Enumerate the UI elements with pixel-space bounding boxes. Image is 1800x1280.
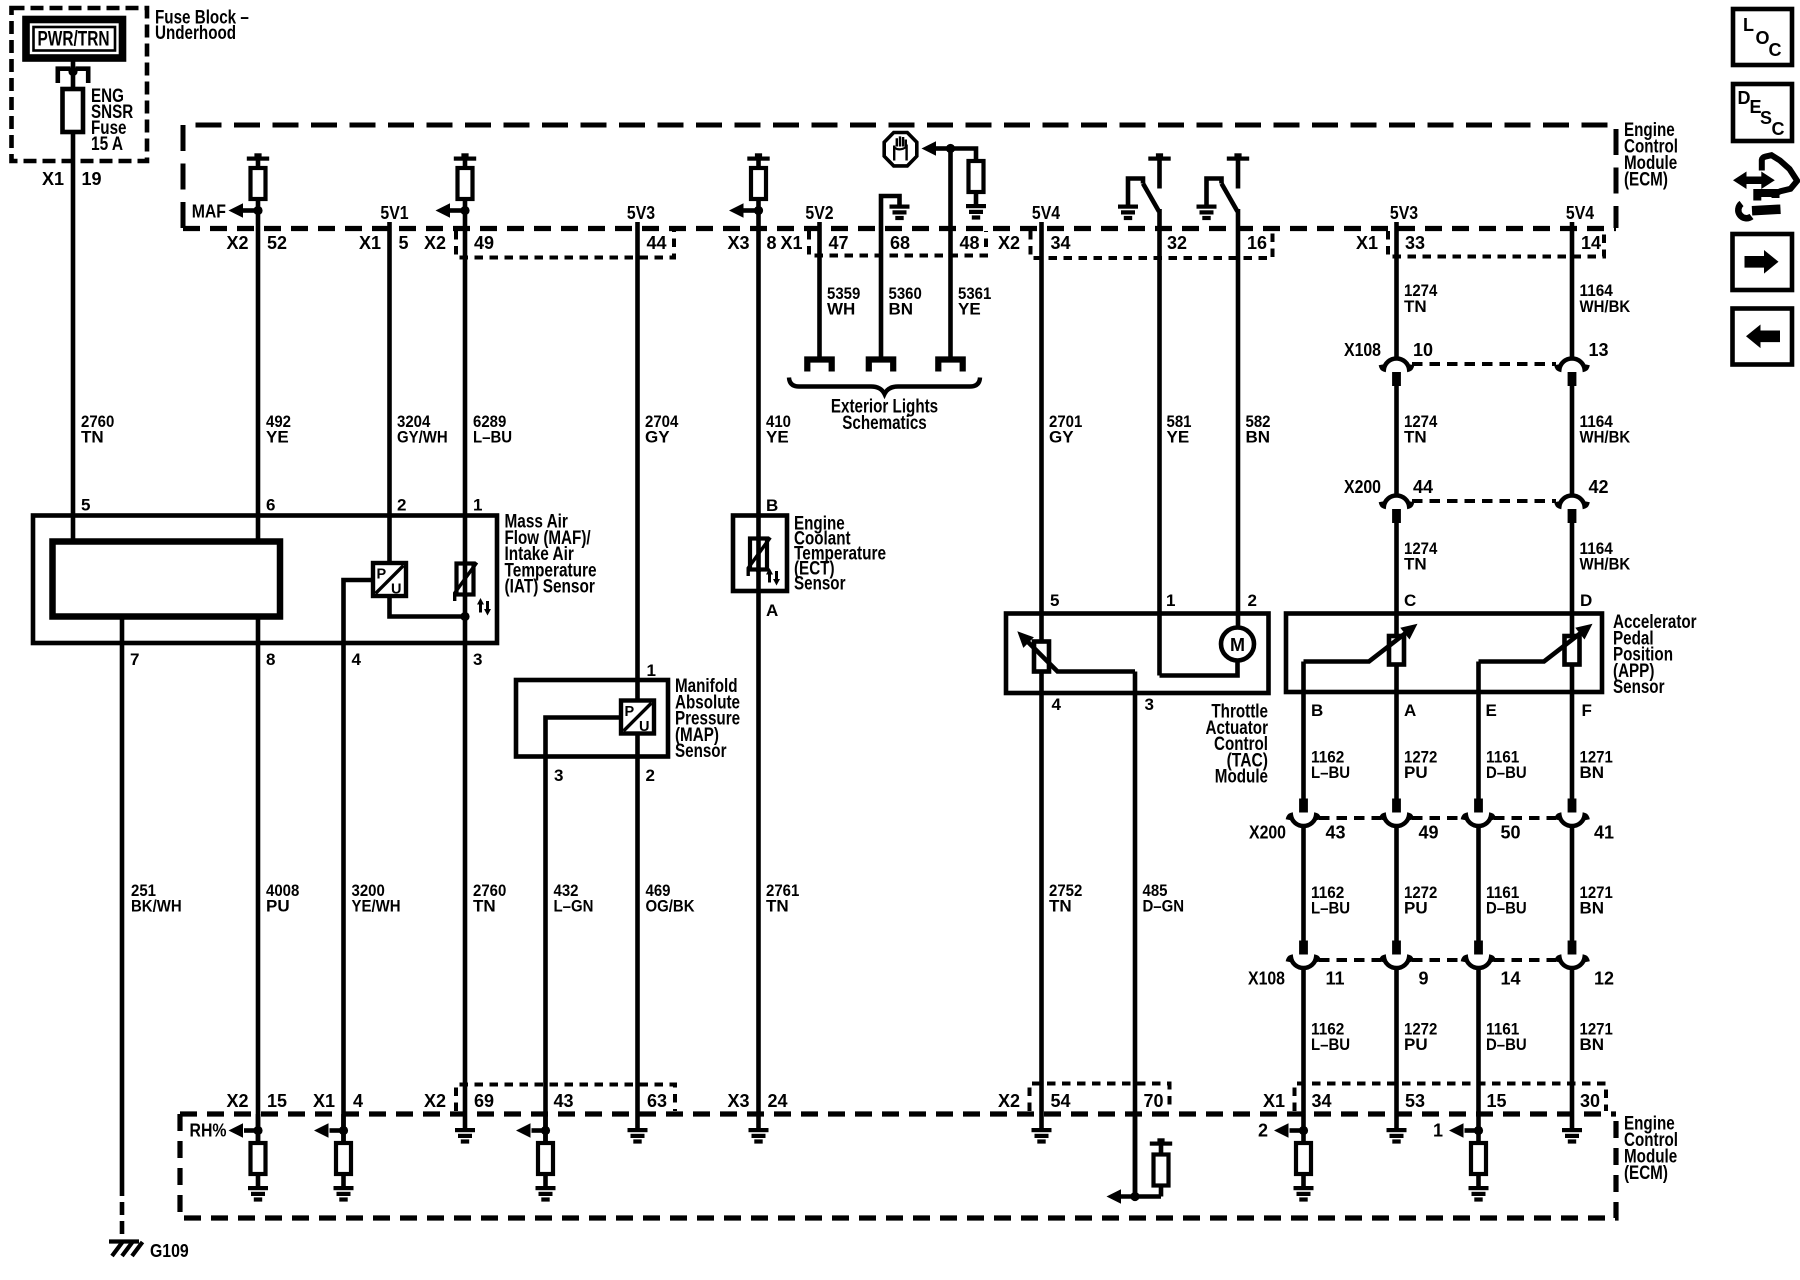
svg-text:X1: X1 bbox=[359, 233, 381, 253]
svg-text:X200: X200 bbox=[1344, 477, 1381, 497]
connector X2 dotted box (pins 54,70) bbox=[1030, 1084, 1170, 1112]
svg-text:34: 34 bbox=[1312, 1091, 1332, 1111]
svg-text:D–BU: D–BU bbox=[1486, 899, 1527, 918]
connector X108 pin 9 socket bbox=[1381, 941, 1412, 969]
fuse ENG SNSR 15A body bbox=[63, 89, 84, 132]
svg-text:X1: X1 bbox=[313, 1091, 335, 1111]
svg-text:5: 5 bbox=[1050, 591, 1059, 610]
ground symbol for pin 68 bbox=[890, 205, 910, 221]
svg-text:32: 32 bbox=[1167, 233, 1187, 253]
svg-text:70: 70 bbox=[1144, 1091, 1164, 1111]
wire 2701 GY from ECM 5V4 to TAC pin 5 bbox=[1039, 222, 1044, 642]
svg-text:1: 1 bbox=[647, 661, 656, 680]
svg-text:TN: TN bbox=[766, 897, 789, 916]
ground at ECM pin 69 bbox=[463, 1114, 468, 1129]
exterior stub wire 48 bbox=[935, 360, 966, 372]
svg-text:D–GN: D–GN bbox=[1143, 897, 1185, 916]
RH% output arrow with resistor and ground bbox=[256, 1114, 261, 1143]
pin 43 arrow with resistor and ground bbox=[543, 1114, 548, 1143]
svg-text:TN: TN bbox=[81, 428, 104, 447]
svg-text:7: 7 bbox=[130, 650, 139, 669]
svg-text:TN: TN bbox=[1404, 428, 1427, 447]
svg-text:8: 8 bbox=[767, 233, 777, 253]
svg-text:WH/BK: WH/BK bbox=[1580, 428, 1631, 447]
svg-text:69: 69 bbox=[474, 1091, 494, 1111]
MAF P/U symbol bbox=[373, 563, 406, 598]
svg-text:BN: BN bbox=[1580, 899, 1605, 918]
svg-text:41: 41 bbox=[1594, 823, 1614, 843]
svg-text:(IAT) Sensor: (IAT) Sensor bbox=[505, 577, 596, 598]
svg-text:11: 11 bbox=[1326, 969, 1345, 989]
svg-text:5: 5 bbox=[81, 496, 90, 515]
wire 432 L-GN MAP pin 3 to ECM bbox=[543, 757, 548, 1144]
Accelerator Pedal Position (APP) Sensor box bbox=[1286, 614, 1602, 693]
IAT up-down arrows bbox=[477, 598, 491, 616]
APP potentiometer 1 bbox=[1389, 636, 1404, 665]
icon hotlink arrows and wrench bbox=[1742, 176, 1766, 184]
svg-text:13: 13 bbox=[1589, 340, 1609, 360]
MAP P/U symbol bbox=[621, 701, 654, 736]
svg-text:PU: PU bbox=[266, 897, 290, 916]
connector X2 dotted box (pins 69,43,63) bbox=[456, 1085, 675, 1112]
fuse PWR/TRN label box bbox=[26, 20, 123, 59]
svg-text:1: 1 bbox=[1433, 1121, 1443, 1141]
dashed connector plane X200 upper bbox=[1412, 499, 1556, 503]
svg-text:44: 44 bbox=[647, 233, 667, 253]
resistor pull-up IAT inside ECM bbox=[454, 153, 476, 160]
svg-text:2: 2 bbox=[646, 766, 655, 785]
dashed connector plane X108 lower bbox=[1319, 958, 1556, 962]
svg-text:53: 53 bbox=[1405, 1091, 1425, 1111]
svg-text:TN: TN bbox=[1404, 297, 1427, 316]
svg-text:15: 15 bbox=[267, 1091, 287, 1111]
wire 2752 TN TAC pin 4 to ECM ground bbox=[1039, 693, 1044, 1114]
resistor pull-up MAF inside ECM bbox=[247, 153, 269, 160]
junction dot MAF signal bbox=[253, 206, 262, 215]
wire 2760 TN MAF pin 3 to ECM ground bbox=[463, 643, 468, 1114]
svg-text:X2: X2 bbox=[998, 1091, 1020, 1111]
svg-text:X200: X200 bbox=[1249, 823, 1286, 843]
svg-text:L–GN: L–GN bbox=[554, 897, 594, 916]
wire APP pin E down bbox=[1476, 662, 1481, 693]
svg-text:5V3: 5V3 bbox=[1390, 203, 1418, 223]
wire TAC pin 3 from wiper bbox=[1133, 672, 1138, 694]
svg-text:68: 68 bbox=[890, 233, 910, 253]
svg-text:GY: GY bbox=[1049, 428, 1074, 447]
wire 5361 YE from junction to exterior lights bbox=[948, 149, 953, 358]
svg-text:Schematics: Schematics bbox=[842, 413, 927, 434]
wire from PWR/TRN to fuse clip bbox=[71, 58, 76, 90]
wire MAP P/U to pin 2 bbox=[635, 734, 640, 757]
icon back arrow box bbox=[1733, 309, 1793, 365]
wire 1274 TN X200 to APP pin C bbox=[1394, 523, 1399, 636]
connector X108 pin 14 socket bbox=[1463, 941, 1494, 969]
svg-text:X2: X2 bbox=[998, 233, 1020, 253]
svg-text:B: B bbox=[1311, 701, 1323, 720]
ECM heavy dashed boundary (top) bbox=[183, 226, 1616, 231]
svg-text:L–BU: L–BU bbox=[1311, 1035, 1350, 1054]
wire 1164 WH/BK ECM pin 14 to X108 bbox=[1570, 222, 1575, 358]
dashed connector plane X108 upper bbox=[1412, 362, 1556, 366]
wire MAP pin 3 jog bbox=[546, 718, 622, 757]
wire 5359 WH from ECM 5V2 to exterior lights bbox=[817, 222, 822, 357]
svg-text:M: M bbox=[1230, 635, 1245, 655]
connector X200 pin 42 socket bbox=[1556, 495, 1587, 523]
svg-text:BN: BN bbox=[1246, 428, 1271, 447]
ECM heavy dashed boundary (bottom) bbox=[180, 1111, 1616, 1116]
svg-text:44: 44 bbox=[1413, 477, 1433, 497]
svg-text:3: 3 bbox=[1145, 695, 1154, 714]
wire 469 OG/BK MAP pin 2 to ECM ground bbox=[635, 757, 640, 1115]
wire X108 to ECM bottom bbox=[1394, 970, 1399, 1115]
svg-text:B: B bbox=[766, 496, 778, 515]
TAC motor circuit wire bbox=[1160, 661, 1238, 676]
svg-text:BN: BN bbox=[1580, 763, 1605, 782]
svg-text:5V1: 5V1 bbox=[380, 203, 408, 223]
ground G109 symbol bbox=[109, 1242, 143, 1257]
svg-text:4: 4 bbox=[1052, 695, 1062, 714]
icon forward arrow box bbox=[1733, 234, 1793, 290]
svg-text:5V3: 5V3 bbox=[627, 203, 655, 223]
exterior stub wire 68 bbox=[866, 360, 897, 372]
wire APP to X200 connector bbox=[1394, 692, 1399, 799]
wire 410 YE ECM to ECT pin B bbox=[756, 199, 761, 572]
junction dot ECT signal bbox=[754, 206, 763, 215]
ground symbol at pin 48 resistor bbox=[966, 204, 986, 220]
svg-text:OG/BK: OG/BK bbox=[646, 897, 696, 916]
APP pot2 wiper arrow bbox=[1479, 629, 1587, 662]
wire 4008 PU MAF pin 8 to ECM RH% bbox=[256, 617, 261, 1144]
connector X2 dotted box (pins 34,32,16) bbox=[1031, 231, 1273, 258]
svg-text:10: 10 bbox=[1413, 340, 1433, 360]
svg-text:GY/WH: GY/WH bbox=[397, 428, 448, 447]
svg-text:YE: YE bbox=[1167, 428, 1190, 447]
svg-text:E: E bbox=[1486, 701, 1497, 720]
wire 2761 TN ECT pin A to ECM ground bbox=[756, 571, 761, 1114]
svg-text:12: 12 bbox=[1594, 969, 1614, 989]
svg-text:WH/BK: WH/BK bbox=[1580, 297, 1631, 316]
Engine Coolant Temperature (ECT) Sensor box bbox=[733, 516, 787, 592]
svg-text:5V2: 5V2 bbox=[805, 203, 833, 223]
wire IAT top stub bbox=[463, 562, 468, 597]
svg-text:4: 4 bbox=[353, 1091, 363, 1111]
svg-text:YE: YE bbox=[958, 300, 981, 319]
octagon hand icon (hot in run) bbox=[884, 133, 917, 166]
svg-text:Sensor: Sensor bbox=[1613, 677, 1665, 698]
svg-text:PU: PU bbox=[1404, 1035, 1428, 1054]
svg-text:Underhood: Underhood bbox=[155, 23, 236, 44]
wire TAC pot bottom to pin 4 bbox=[1039, 672, 1044, 694]
svg-text:X1: X1 bbox=[42, 169, 64, 189]
svg-text:19: 19 bbox=[82, 169, 102, 189]
svg-text:C: C bbox=[1769, 40, 1782, 60]
APP pot1 wiper arrow bbox=[1304, 629, 1412, 662]
svg-text:5: 5 bbox=[399, 233, 409, 253]
svg-text:TN: TN bbox=[1404, 555, 1427, 574]
svg-text:L–BU: L–BU bbox=[1311, 899, 1350, 918]
connector X200 pin 49 socket bbox=[1381, 799, 1412, 827]
connector X200 pin 43 socket bbox=[1288, 799, 1319, 827]
Manifold Absolute Pressure (MAP) Sensor box bbox=[516, 680, 668, 757]
exterior stub wire 47 bbox=[804, 360, 835, 372]
ECT up-down arrows bbox=[766, 568, 780, 586]
arrow to hand icon bbox=[936, 146, 951, 151]
wire APP to X200 connector bbox=[1570, 692, 1575, 799]
connector X1 dotted box (pins 47,68,48) bbox=[809, 231, 986, 256]
wire X108 to ECM bottom bbox=[1570, 970, 1575, 1115]
wire X200 to X108 connector bbox=[1394, 828, 1399, 941]
svg-text:X108: X108 bbox=[1344, 340, 1381, 360]
connector X200 pin 50 socket bbox=[1463, 799, 1494, 827]
wire 3200 YE/WH MAF pin 4 to ECM bbox=[341, 643, 346, 1143]
pin 34 arrow 2 with resistor and ground bbox=[1301, 1114, 1306, 1143]
junction dot IAT bottom bbox=[460, 612, 469, 621]
svg-text:50: 50 bbox=[1501, 823, 1521, 843]
wire X108 to ECM bottom bbox=[1476, 970, 1481, 1115]
Mass Air Flow (MAF)/Intake Air Temperature (IAT) Sensor box bbox=[33, 516, 497, 644]
svg-text:33: 33 bbox=[1405, 233, 1425, 253]
svg-text:A: A bbox=[766, 601, 778, 620]
svg-text:C: C bbox=[1404, 591, 1416, 610]
wire 582 BN from ECM pin 16 to TAC pin 2 bbox=[1236, 209, 1241, 628]
wire IAT to pin 3 bbox=[463, 596, 468, 643]
switch TAC motor control 1 inside ECM bbox=[1148, 153, 1170, 160]
svg-text:MAF: MAF bbox=[192, 202, 226, 222]
svg-text:L–BU: L–BU bbox=[1311, 763, 1350, 782]
svg-text:D–BU: D–BU bbox=[1486, 763, 1527, 782]
svg-text:A: A bbox=[1404, 701, 1416, 720]
wire 251 BK/WH MAF pin 7 to G109 bbox=[120, 617, 125, 1184]
connector X108 pin 13 socket bbox=[1556, 358, 1587, 386]
svg-text:4: 4 bbox=[352, 650, 362, 669]
wire APP pot2 to pin F bbox=[1570, 665, 1575, 693]
svg-text:34: 34 bbox=[1051, 233, 1071, 253]
APP potentiometer 2 bbox=[1565, 636, 1580, 665]
svg-text:43: 43 bbox=[1326, 823, 1346, 843]
fuse clip terminal bbox=[56, 69, 91, 83]
wire 3204 GY/WH from ECM 5V1 to MAF pin 2 bbox=[387, 222, 392, 563]
wire 581 YE from ECM pin 32 to TAC pin 1 bbox=[1157, 209, 1162, 676]
svg-text:5V4: 5V4 bbox=[1566, 203, 1594, 223]
svg-text:L: L bbox=[1743, 15, 1754, 35]
svg-text:C: C bbox=[1772, 119, 1785, 139]
svg-text:3: 3 bbox=[473, 650, 482, 669]
resistor pull-up ECT inside ECM bbox=[747, 153, 769, 160]
wire 6289 L-BU from resistor to MAF pin 1 bbox=[463, 199, 468, 562]
svg-text:BN: BN bbox=[889, 300, 914, 319]
switch TAC motor control 2 inside ECM bbox=[1227, 153, 1249, 160]
svg-text:(ECM): (ECM) bbox=[1624, 170, 1668, 191]
svg-text:15 A: 15 A bbox=[91, 134, 123, 155]
MAF signal arrow bbox=[243, 208, 258, 213]
svg-text:WH: WH bbox=[827, 300, 855, 319]
Engine Control Module (ECM) top dashed box bbox=[183, 125, 1616, 228]
svg-text:14: 14 bbox=[1501, 969, 1521, 989]
svg-text:15: 15 bbox=[1487, 1091, 1507, 1111]
svg-text:TN: TN bbox=[473, 897, 496, 916]
wire X200 to X108 connector bbox=[1570, 828, 1575, 941]
svg-text:52: 52 bbox=[267, 233, 287, 253]
wire P/U bottom to IAT junction bbox=[390, 596, 466, 617]
svg-text:X1: X1 bbox=[1356, 233, 1378, 253]
svg-text:YE: YE bbox=[266, 428, 289, 447]
wire 2760 TN from fuse to MAF pin 5 bbox=[71, 132, 76, 542]
svg-text:9: 9 bbox=[1419, 969, 1429, 989]
svg-text:X3: X3 bbox=[727, 233, 749, 253]
svg-text:Module: Module bbox=[1215, 767, 1268, 788]
wire X108 to ECM bottom bbox=[1301, 970, 1306, 1115]
svg-text:5V4: 5V4 bbox=[1032, 203, 1060, 223]
connector X108 pin 11 socket bbox=[1288, 941, 1319, 969]
junction dot pin 48 wire bbox=[946, 144, 955, 153]
wire APP pin B down bbox=[1301, 662, 1306, 693]
ECT signal arrow bbox=[744, 208, 759, 213]
svg-text:Sensor: Sensor bbox=[675, 741, 727, 762]
ground at ECM pin 24 bbox=[756, 1114, 761, 1129]
connector X108 pin 12 socket bbox=[1556, 941, 1587, 969]
svg-text:2: 2 bbox=[1248, 591, 1257, 610]
ECT thermistor symbol bbox=[748, 538, 770, 577]
svg-text:GY: GY bbox=[645, 428, 670, 447]
svg-text:BK/WH: BK/WH bbox=[131, 897, 182, 916]
svg-text:S: S bbox=[1760, 108, 1772, 128]
connector X200 pin 44 socket bbox=[1381, 495, 1412, 523]
wire 485 D-GN TAC pin 3 to ECM bbox=[1133, 693, 1138, 1197]
wire X200 to X108 connector bbox=[1476, 828, 1481, 941]
svg-text:47: 47 bbox=[829, 233, 849, 253]
svg-text:WH/BK: WH/BK bbox=[1580, 555, 1631, 574]
junction dot IAT signal bbox=[460, 206, 469, 215]
ground at ECM pin 54 bbox=[1039, 1114, 1044, 1129]
svg-text:PU: PU bbox=[1404, 899, 1428, 918]
TAC throttle position potentiometer bbox=[1034, 642, 1049, 672]
svg-text:PU: PU bbox=[1404, 763, 1428, 782]
svg-text:YE/WH: YE/WH bbox=[352, 897, 401, 916]
svg-text:3: 3 bbox=[554, 766, 563, 785]
connector X1 dotted box (pins 34,53,15,30) bbox=[1295, 1084, 1607, 1112]
svg-text:49: 49 bbox=[1419, 823, 1439, 843]
svg-text:L–BU: L–BU bbox=[473, 428, 512, 447]
svg-text:X3: X3 bbox=[727, 1091, 749, 1111]
resistor with terminal at pin 70 branch bbox=[1150, 1138, 1172, 1145]
wire 1274 TN X108 to X200 bbox=[1394, 386, 1399, 495]
Throttle Actuator Control (TAC) Module box bbox=[1006, 614, 1269, 694]
svg-text:O: O bbox=[1756, 28, 1770, 48]
pin 15 arrow 1 with resistor and ground bbox=[1476, 1114, 1481, 1143]
wire APP pot1 to pin A bbox=[1394, 665, 1399, 693]
wire APP to X200 connector bbox=[1301, 692, 1306, 799]
svg-text:8: 8 bbox=[266, 650, 275, 669]
wire from resistor to MAF box pin 6 bbox=[256, 199, 261, 542]
svg-text:42: 42 bbox=[1589, 477, 1609, 497]
pin 70 arrow branch bbox=[1133, 1114, 1138, 1197]
wire 5360 BN ground leg inside ECM bbox=[881, 196, 900, 357]
svg-text:48: 48 bbox=[960, 233, 980, 253]
svg-text:TN: TN bbox=[1049, 897, 1072, 916]
svg-text:X108: X108 bbox=[1248, 969, 1285, 989]
svg-text:D: D bbox=[1580, 591, 1592, 610]
IAT thermistor symbol bbox=[455, 563, 477, 602]
svg-text:6: 6 bbox=[266, 496, 275, 515]
ground at ECM pin 30 bbox=[1570, 1114, 1575, 1129]
motor M in TAC module bbox=[1221, 628, 1254, 661]
MAF inner element box bbox=[53, 542, 281, 617]
svg-text:X1: X1 bbox=[780, 233, 802, 253]
svg-text:YE: YE bbox=[766, 428, 789, 447]
svg-text:63: 63 bbox=[647, 1091, 667, 1111]
svg-text:43: 43 bbox=[554, 1091, 574, 1111]
Engine Control Module (ECM) bottom dashed box bbox=[180, 1114, 1616, 1218]
exterior lights brace bbox=[789, 378, 980, 395]
pin 4 arrow with resistor and ground bbox=[341, 1114, 346, 1143]
svg-text:X1: X1 bbox=[1263, 1091, 1285, 1111]
connector X2 dotted box (pins 49,44) bbox=[456, 231, 674, 258]
svg-text:49: 49 bbox=[474, 233, 494, 253]
svg-text:X2: X2 bbox=[424, 1091, 446, 1111]
fuse block - underhood dashed box bbox=[12, 8, 148, 161]
svg-text:X2: X2 bbox=[424, 233, 446, 253]
svg-text:G109: G109 bbox=[150, 1241, 189, 1261]
IAT signal arrow bbox=[450, 208, 465, 213]
svg-text:54: 54 bbox=[1051, 1091, 1071, 1111]
svg-text:D–BU: D–BU bbox=[1486, 1035, 1527, 1054]
wire 2704 GY from ECM 5V3 to MAP pin 1 bbox=[635, 222, 640, 701]
svg-text:(ECM): (ECM) bbox=[1624, 1163, 1668, 1184]
wire X200 to X108 connector bbox=[1301, 828, 1306, 941]
wire 1274 TN ECM pin 33 to X108 bbox=[1394, 222, 1399, 358]
icon DESC box bbox=[1733, 84, 1792, 141]
wire 1164 WH/BK X200 to APP pin D bbox=[1570, 523, 1575, 636]
svg-text:PWR/TRN: PWR/TRN bbox=[38, 27, 110, 51]
svg-text:1: 1 bbox=[1166, 591, 1175, 610]
svg-text:2: 2 bbox=[1258, 1121, 1268, 1141]
svg-text:14: 14 bbox=[1581, 233, 1601, 253]
svg-text:BN: BN bbox=[1580, 1035, 1605, 1054]
resistor to ground at pin 48 bbox=[951, 149, 977, 162]
icon LOC box bbox=[1733, 9, 1792, 65]
ground at ECM pin 53 bbox=[1394, 1114, 1399, 1129]
svg-text:X2: X2 bbox=[226, 1091, 248, 1111]
connector X108 pin 10 socket bbox=[1381, 358, 1412, 386]
svg-text:F: F bbox=[1582, 701, 1592, 720]
svg-text:Sensor: Sensor bbox=[794, 574, 846, 595]
wire APP to X200 connector bbox=[1476, 692, 1481, 799]
svg-text:1: 1 bbox=[473, 496, 482, 515]
dashed connector plane X200 lower bbox=[1319, 816, 1556, 820]
ground at ECM pin 63 bbox=[635, 1114, 640, 1129]
svg-text:24: 24 bbox=[768, 1091, 788, 1111]
svg-text:16: 16 bbox=[1247, 233, 1267, 253]
svg-text:2: 2 bbox=[397, 496, 406, 515]
TAC pot wiper arrow bbox=[1023, 637, 1135, 672]
connector X1 dotted box (pins 33,14) bbox=[1388, 231, 1604, 257]
wire MAF pin 4 jog bbox=[344, 580, 374, 643]
wire 1164 WH/BK X108 to X200 bbox=[1570, 386, 1575, 495]
svg-text:RH%: RH% bbox=[190, 1121, 227, 1141]
svg-text:X2: X2 bbox=[226, 233, 248, 253]
connector X200 pin 41 socket bbox=[1556, 799, 1587, 827]
svg-text:30: 30 bbox=[1580, 1091, 1600, 1111]
